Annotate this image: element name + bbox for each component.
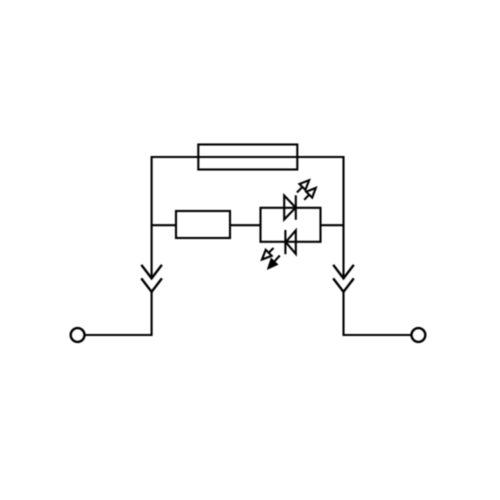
wire: left vertical (top corner down to upper clamp)	[151, 156, 153, 278]
LED D1 (top, anode left) triangle	[284, 196, 296, 220]
wire: branch from left vertical to resistor	[152, 224, 176, 226]
wire: right vertical (top corner down to upper clamp)	[342, 156, 344, 277]
LED D1 cathode bar	[295, 195, 297, 220]
right clamp contact chevron 2	[333, 278, 354, 291]
fuse F1	[198, 145, 297, 170]
LED D1 emission arrow 2	[304, 188, 316, 200]
LED D2 cathode bar	[284, 230, 286, 254]
LED D1 emission arrow 1	[297, 180, 309, 192]
resistor R1	[176, 211, 230, 238]
wire: right lower vertical and horizontal to terminal	[344, 291, 411, 335]
wire: left lower vertical and horizontal to terminal	[86, 291, 152, 335]
LED D2 (bottom, anode right) triangle	[286, 230, 296, 254]
LED D2 emission arrow 1	[262, 248, 274, 260]
wire: top horizontal bus	[152, 156, 344, 158]
terminal circle left	[71, 328, 85, 342]
wire: LED box to right vertical	[321, 224, 344, 226]
terminal circle right	[412, 328, 426, 342]
LED parallel box	[261, 208, 321, 242]
left clamp contact chevron 1	[141, 265, 162, 279]
LED D2 emission arrow 2	[269, 256, 280, 269]
right clamp contact chevron 1	[333, 265, 354, 279]
left clamp contact chevron 2	[141, 278, 162, 291]
wire: resistor to LED box	[230, 224, 261, 226]
